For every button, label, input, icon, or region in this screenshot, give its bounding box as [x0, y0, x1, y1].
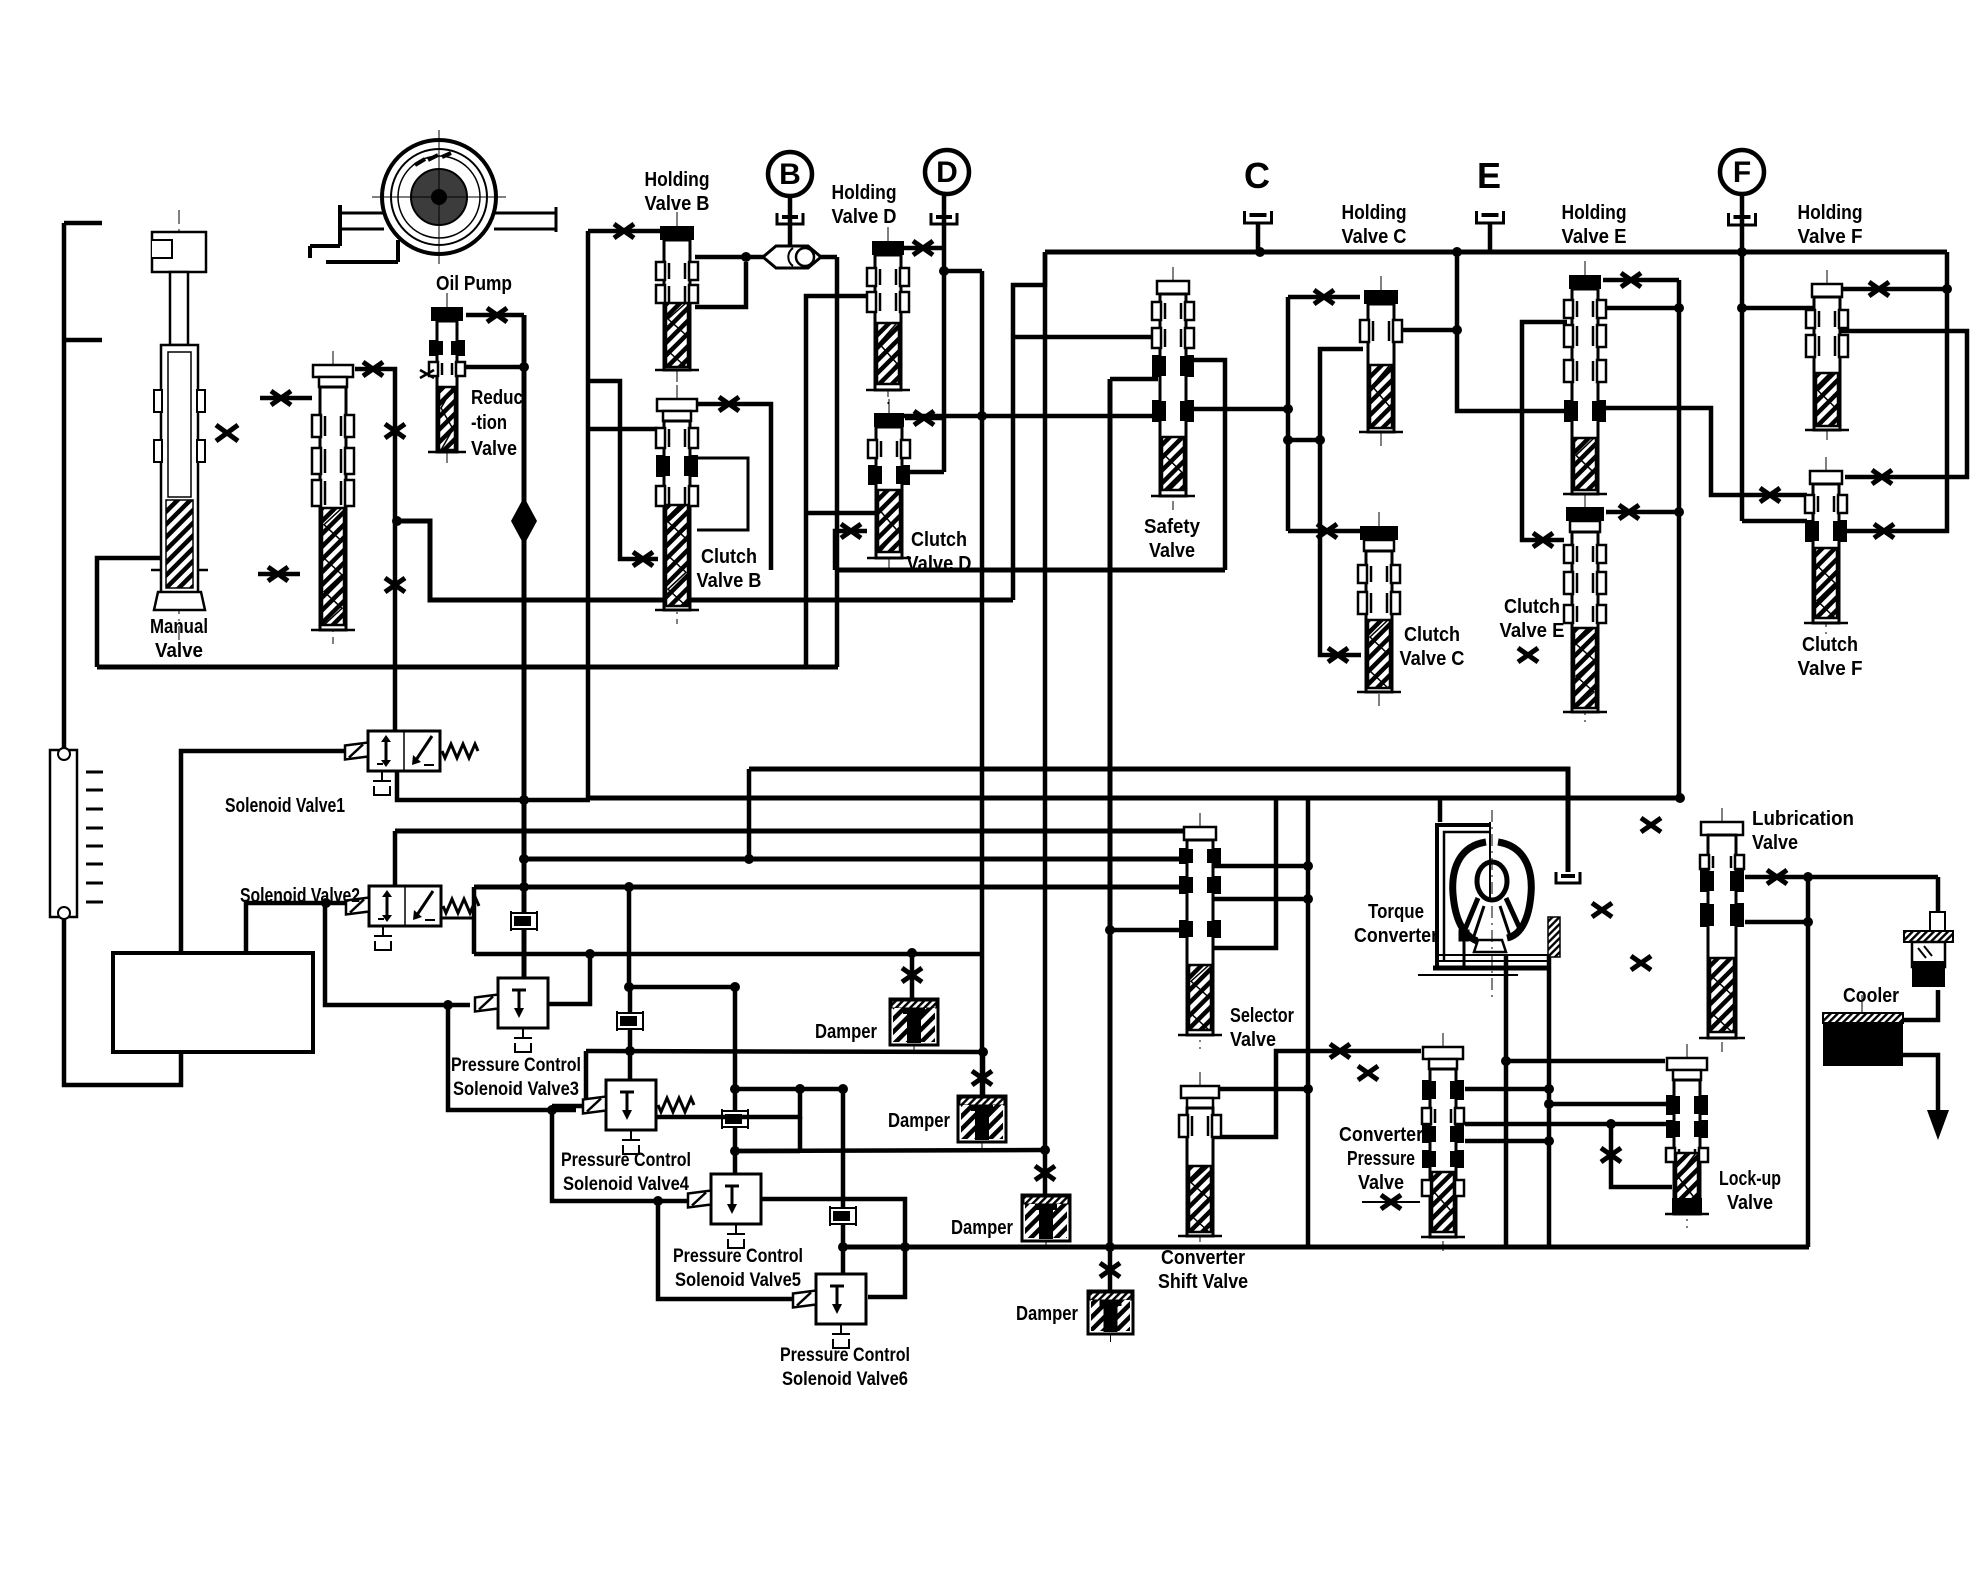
pressure control solenoid valve 3 — [498, 978, 548, 1028]
orifice on main supply x524 — [511, 911, 537, 931]
svg-text:B: B — [779, 158, 801, 191]
wire long vertical x982 — [980, 271, 985, 1096]
svg-text:E: E — [1477, 155, 1501, 196]
X mark below clutch valve E label — [1518, 648, 1538, 662]
wire holding valve E cap X line — [1603, 278, 1679, 283]
wire PCSV3 output riser — [548, 954, 590, 1004]
wire cooler outlet to arrow — [1903, 1055, 1938, 1116]
check valve to node B — [763, 246, 821, 268]
svg-text:Holding: Holding — [1342, 202, 1407, 224]
wire line y1151 — [735, 1149, 800, 1154]
holding valve D — [866, 227, 910, 404]
reduction valve — [428, 293, 466, 466]
strainer — [50, 748, 103, 919]
wire manual valve outlet left — [97, 558, 161, 667]
wire main supply vertical x524 — [522, 315, 527, 979]
node C tank — [1245, 211, 1272, 223]
wire riser x837 from check valve to y667 — [835, 257, 840, 667]
svg-text:Converter: Converter — [1161, 1247, 1245, 1269]
clutch valve B — [655, 385, 699, 624]
wire branch x629 to y987 — [627, 887, 632, 987]
wire damper3 vertical x1045 — [1043, 252, 1048, 1195]
pressure control solenoid valve 4 — [606, 1080, 656, 1130]
wire holding valve F left port — [1742, 306, 1813, 311]
wire holding valve B lower right loop — [695, 262, 746, 307]
wire clutch valve C cap feed — [1288, 529, 1361, 534]
svg-text:-tion: -tion — [471, 412, 507, 434]
wire bus y887 to selector valve — [474, 885, 1186, 890]
wire selector valve right port y866 — [1214, 864, 1308, 869]
wire x588 vertical B region — [586, 231, 591, 799]
svg-text:Solenoid Valve3: Solenoid Valve3 — [453, 1079, 579, 1100]
wire bus y859 to selector valve — [524, 857, 1186, 862]
lock-up valve — [1665, 1044, 1709, 1228]
wire long supply y798 to right block — [590, 796, 1680, 801]
svg-text:Valve F: Valve F — [1798, 226, 1863, 248]
svg-text:Valve: Valve — [1752, 832, 1798, 854]
svg-text:Oil Pump: Oil Pump — [436, 273, 512, 295]
wire lubrication valve right port upper — [1745, 875, 1938, 880]
solenoid valve 2 — [369, 886, 441, 926]
wire ECU box to solenoid valve2 — [246, 903, 346, 953]
wire PCSV4 feed x630 — [628, 987, 633, 1080]
X marks near torque converter — [1641, 818, 1661, 832]
svg-text:Holding: Holding — [1562, 202, 1627, 224]
manual valve X mark — [216, 425, 238, 441]
wire corner x474 — [472, 887, 477, 954]
wire long vertical x1110 safety to bottom bus — [1108, 379, 1113, 1247]
wire node E stub — [1488, 224, 1493, 252]
clutch valve D — [867, 399, 911, 572]
svg-text:Holding: Holding — [1798, 202, 1863, 224]
clutch valve E — [1563, 493, 1607, 726]
ECU box — [113, 953, 313, 1052]
check valve diamond — [511, 497, 537, 545]
wire branch to main supply line y600 — [397, 521, 1013, 600]
wire bus y769 to tank — [749, 769, 1568, 872]
wire damper2 feed lower — [981, 1052, 986, 1096]
wire PCSV6 feed lower — [841, 1247, 846, 1274]
orifice on PCSV4 feed — [617, 1011, 643, 1031]
converter shift valve — [1178, 1072, 1222, 1250]
svg-text:Valve E: Valve E — [1500, 620, 1565, 642]
wire main line y667 — [97, 665, 838, 670]
wire node D vertical — [942, 194, 947, 472]
svg-text:Damper: Damper — [1016, 1303, 1078, 1325]
svg-text:Damper: Damper — [888, 1110, 950, 1132]
wire safety valve left port y337 — [1013, 335, 1158, 340]
wire clutch valve E cap X line — [1606, 510, 1679, 515]
wire loop A vertical x1308 — [1306, 798, 1311, 1247]
wire selector valve right port to torque converter — [1214, 798, 1276, 948]
wire strainer bottom to ECU box — [64, 917, 181, 1085]
wire bus right branch x1947 — [1846, 252, 1947, 531]
svg-text:Holding: Holding — [645, 169, 710, 191]
wire converter pressure valve right port y1141 — [1465, 1139, 1549, 1144]
wire line y987 — [629, 985, 737, 990]
svg-text:Valve E: Valve E — [1562, 226, 1627, 248]
wire line y1051 to damper2 — [586, 1051, 983, 1052]
svg-text:Solenoid Valve6: Solenoid Valve6 — [782, 1369, 908, 1390]
wire y1051 left drop to staircase — [552, 1051, 586, 1106]
wire vertical x1288 to clutch valve C — [1286, 297, 1291, 531]
wire left bracket arm upper — [64, 221, 102, 226]
pressure control solenoid valve 5 — [711, 1174, 761, 1224]
wire reduction valve cap to supply riser — [466, 313, 524, 318]
wire clutch valve B right loop — [697, 458, 748, 530]
wire converter pressure valve right port y1089 — [1465, 1087, 1549, 1092]
wire branch D to x982 — [944, 269, 982, 274]
svg-text:Converter: Converter — [1354, 925, 1438, 947]
svg-text:Solenoid Valve4: Solenoid Valve4 — [563, 1174, 689, 1195]
svg-text:Solenoid Valve5: Solenoid Valve5 — [675, 1270, 801, 1291]
wire clutch valve D cap X line — [905, 416, 944, 421]
wire bus y831 to selector valve — [395, 829, 1186, 834]
tank at end of y769 bus — [1556, 872, 1580, 883]
clutch valve F — [1804, 457, 1848, 637]
svg-text:Safety: Safety — [1144, 516, 1201, 538]
wire PCSV5 feed x735 — [733, 987, 738, 1174]
wire PCSV5 output riser — [761, 1199, 905, 1247]
svg-text:Valve C: Valve C — [1400, 648, 1465, 670]
wire holding valve E left loop to clutch valve E — [1522, 322, 1567, 540]
damper 2 — [958, 1096, 1006, 1150]
wire holding valve F right loop — [1841, 331, 1967, 477]
svg-text:Cooler: Cooler — [1843, 985, 1899, 1007]
wire left bracket arm lower — [64, 338, 102, 343]
wire lock-up lower loop with X — [1611, 1124, 1672, 1187]
svg-text:Lock-up: Lock-up — [1719, 1168, 1781, 1190]
clutch valve C — [1357, 512, 1401, 706]
svg-text:Valve: Valve — [1358, 1172, 1404, 1194]
wire node F vertical — [1740, 194, 1745, 521]
wire top bus y252 — [1045, 250, 1947, 255]
wire damper4 feed — [1108, 1247, 1113, 1291]
wire clutch valve D right port corner — [905, 470, 944, 475]
node D — [925, 150, 969, 194]
wire line y1089 — [735, 1087, 843, 1092]
oil filter — [1904, 912, 1953, 987]
svg-text:F: F — [1733, 156, 1751, 189]
wire strainer top feed x64 — [62, 223, 67, 750]
wire lock-up valve cap feed y1061 — [1506, 1059, 1665, 1064]
holding valve C — [1359, 276, 1403, 446]
svg-text:Clutch: Clutch — [1504, 596, 1560, 618]
wire PCSV4 output riser — [656, 1089, 800, 1117]
wire line y1150 to damper3 — [735, 1150, 1045, 1151]
wire filter to cooler — [1903, 990, 1938, 1020]
wire holding valve B cap feed with X — [588, 229, 661, 234]
svg-text:Clutch: Clutch — [1802, 634, 1858, 656]
converter pressure valve — [1421, 1033, 1465, 1251]
svg-text:Selector: Selector — [1230, 1005, 1294, 1027]
solenoid valve 1 — [368, 731, 440, 771]
svg-text:Solenoid Valve1: Solenoid Valve1 — [225, 795, 345, 817]
svg-text:Pressure Control: Pressure Control — [451, 1055, 581, 1076]
wire torque converter inlet — [1438, 798, 1443, 822]
wire converter shift valve right port to converter pressure valve — [1214, 1051, 1421, 1137]
wire riser x1680 tie — [1675, 793, 1685, 803]
damper 1 — [890, 999, 938, 1053]
wire vertical x1506 — [1504, 955, 1509, 1247]
wire PCSV6 output riser — [868, 1247, 905, 1297]
svg-text:C: C — [1244, 155, 1270, 196]
wire safety valve left port x1110 — [1110, 377, 1158, 382]
wire holding valve E right port to clutch valve F — [1601, 408, 1807, 495]
svg-text:D: D — [936, 156, 958, 189]
wire selector valve right port y899 — [1214, 897, 1308, 902]
wire clutch valve B right port riser x771 — [697, 404, 771, 570]
holding valve E — [1563, 261, 1607, 508]
svg-text:Valve D: Valve D — [832, 206, 897, 228]
wire clutch valve D to safety valve y416 — [876, 414, 1158, 419]
node B — [768, 152, 812, 196]
wire jog to clutch valve B left loop — [588, 381, 658, 559]
wire holding valve C right port — [1399, 328, 1457, 333]
X mark below converter pressure valve label — [1362, 1201, 1420, 1203]
svg-text:Manual: Manual — [150, 616, 208, 638]
svg-text:Clutch: Clutch — [1404, 624, 1460, 646]
wire holding valve B outlet to check valve — [695, 255, 764, 260]
safety valve — [1151, 267, 1195, 510]
node F tank — [1729, 213, 1756, 225]
svg-text:Clutch: Clutch — [911, 529, 967, 551]
wire holding valve C cap feed — [1288, 295, 1360, 300]
svg-text:Solenoid Valve2: Solenoid Valve2 — [240, 885, 360, 907]
wire vertical x1679 — [1677, 280, 1682, 798]
node B tank — [777, 213, 803, 224]
svg-text:Pressure Control: Pressure Control — [780, 1345, 910, 1366]
svg-text:Valve: Valve — [1727, 1192, 1773, 1214]
manual valve — [151, 210, 208, 650]
selector valve — [1178, 813, 1222, 1049]
wire reduction valve right port tie — [462, 365, 524, 370]
holding valve F — [1805, 270, 1849, 444]
wire riser x749 — [747, 769, 752, 859]
wire PCSV6 feed x843 — [841, 1089, 846, 1247]
orifice on PCSV5 feed — [722, 1109, 748, 1129]
wire holding valve D left loop — [806, 296, 873, 667]
wire bus branch to holding valve E x1457 — [1457, 252, 1567, 411]
wire filter feed — [1936, 877, 1941, 933]
wire supply riser to top bus — [1013, 252, 1045, 600]
damper 4 — [1088, 1291, 1133, 1342]
holding valve B — [655, 212, 699, 384]
svg-text:Valve: Valve — [155, 640, 203, 662]
wire bottom bus y1247 — [843, 1245, 1809, 1250]
wire vertical x1549 — [1547, 955, 1552, 1247]
wire holding valve D cap X line — [904, 246, 944, 251]
orifice on PCSV6 feed — [830, 1206, 856, 1226]
wire clutch valve C bottom left loop — [1320, 440, 1361, 655]
wire solenoid valve2 feed riser — [393, 831, 398, 886]
wire safety valve right port y409 — [1190, 407, 1288, 412]
svg-text:Torque: Torque — [1368, 901, 1424, 923]
wire line y954 — [474, 952, 982, 957]
wire clutch valve F left feed — [1742, 519, 1807, 524]
wire valve2 left X stub — [260, 396, 312, 401]
torque converter — [1418, 810, 1560, 1000]
svg-text:Pressure: Pressure — [1347, 1148, 1415, 1170]
svg-text:Valve C: Valve C — [1342, 226, 1407, 248]
svg-text:Holding: Holding — [832, 182, 897, 204]
oil pump — [310, 130, 556, 264]
wire solenoid valve1 output — [397, 771, 590, 800]
wire converter pressure valve right port y1124 to lock-up — [1465, 1122, 1672, 1127]
svg-text:Valve: Valve — [1149, 540, 1195, 562]
wire ECU box top to solenoid valve1 — [181, 751, 347, 953]
svg-text:Shift Valve: Shift Valve — [1158, 1271, 1248, 1293]
wire line y570 to safety valve box — [835, 568, 1225, 573]
svg-text:Converter: Converter — [1339, 1124, 1423, 1146]
svg-text:Damper: Damper — [815, 1021, 877, 1043]
node E tank — [1477, 211, 1504, 223]
wire branch y440 to holding valve C left — [1288, 349, 1363, 440]
valve2 spool — [311, 351, 355, 644]
wire valve2 right to solenoid valve1 riser x395 — [355, 369, 395, 731]
wire holding valve F cap X line — [1841, 287, 1947, 292]
node F — [1720, 150, 1764, 194]
svg-text:Valve: Valve — [471, 438, 517, 460]
lubrication valve — [1699, 808, 1745, 1052]
svg-text:Reduc: Reduc — [471, 387, 523, 409]
cooler — [1823, 995, 1903, 1066]
wire lubrication drain x1808 to bottom bus — [1806, 877, 1811, 1247]
wire holding valve E right port — [1603, 306, 1679, 311]
wire lubrication valve right port lower — [1745, 920, 1808, 925]
wire clutch valve D bottom X line — [835, 531, 867, 570]
svg-text:Clutch: Clutch — [701, 546, 757, 568]
wire ECU staircase to PCSV actuators — [325, 904, 470, 1005]
wire solenoid valve2 output link — [441, 917, 474, 920]
wire clutch valve B upper-left port — [588, 427, 658, 432]
wire valve2 lower left x stub — [258, 572, 300, 577]
svg-text:Pressure Control: Pressure Control — [561, 1150, 691, 1171]
wire selector valve left port y930 — [1110, 928, 1186, 933]
wire node C stub — [1256, 224, 1261, 252]
svg-text:Damper: Damper — [951, 1217, 1013, 1239]
svg-text:Valve: Valve — [1230, 1029, 1276, 1051]
svg-text:Lubrication: Lubrication — [1752, 808, 1854, 830]
svg-text:Pressure Control: Pressure Control — [673, 1246, 803, 1267]
svg-text:Valve B: Valve B — [697, 570, 762, 592]
wire damper1 feed — [910, 953, 915, 999]
wire safety valve box right side — [1192, 360, 1225, 570]
arrow outlet — [1927, 1110, 1949, 1140]
wire node B drop to check valve — [788, 196, 793, 250]
svg-text:Valve B: Valve B — [645, 193, 710, 215]
pressure control solenoid valve 6 — [816, 1274, 866, 1324]
damper 3 — [1022, 1195, 1070, 1249]
wire lock-up valve left port y1104 — [1549, 1102, 1672, 1107]
wire converter shift valve top port — [1214, 1087, 1308, 1092]
svg-text:Valve D: Valve D — [907, 553, 972, 575]
svg-text:Valve F: Valve F — [1798, 658, 1863, 680]
node D tank — [931, 213, 957, 224]
